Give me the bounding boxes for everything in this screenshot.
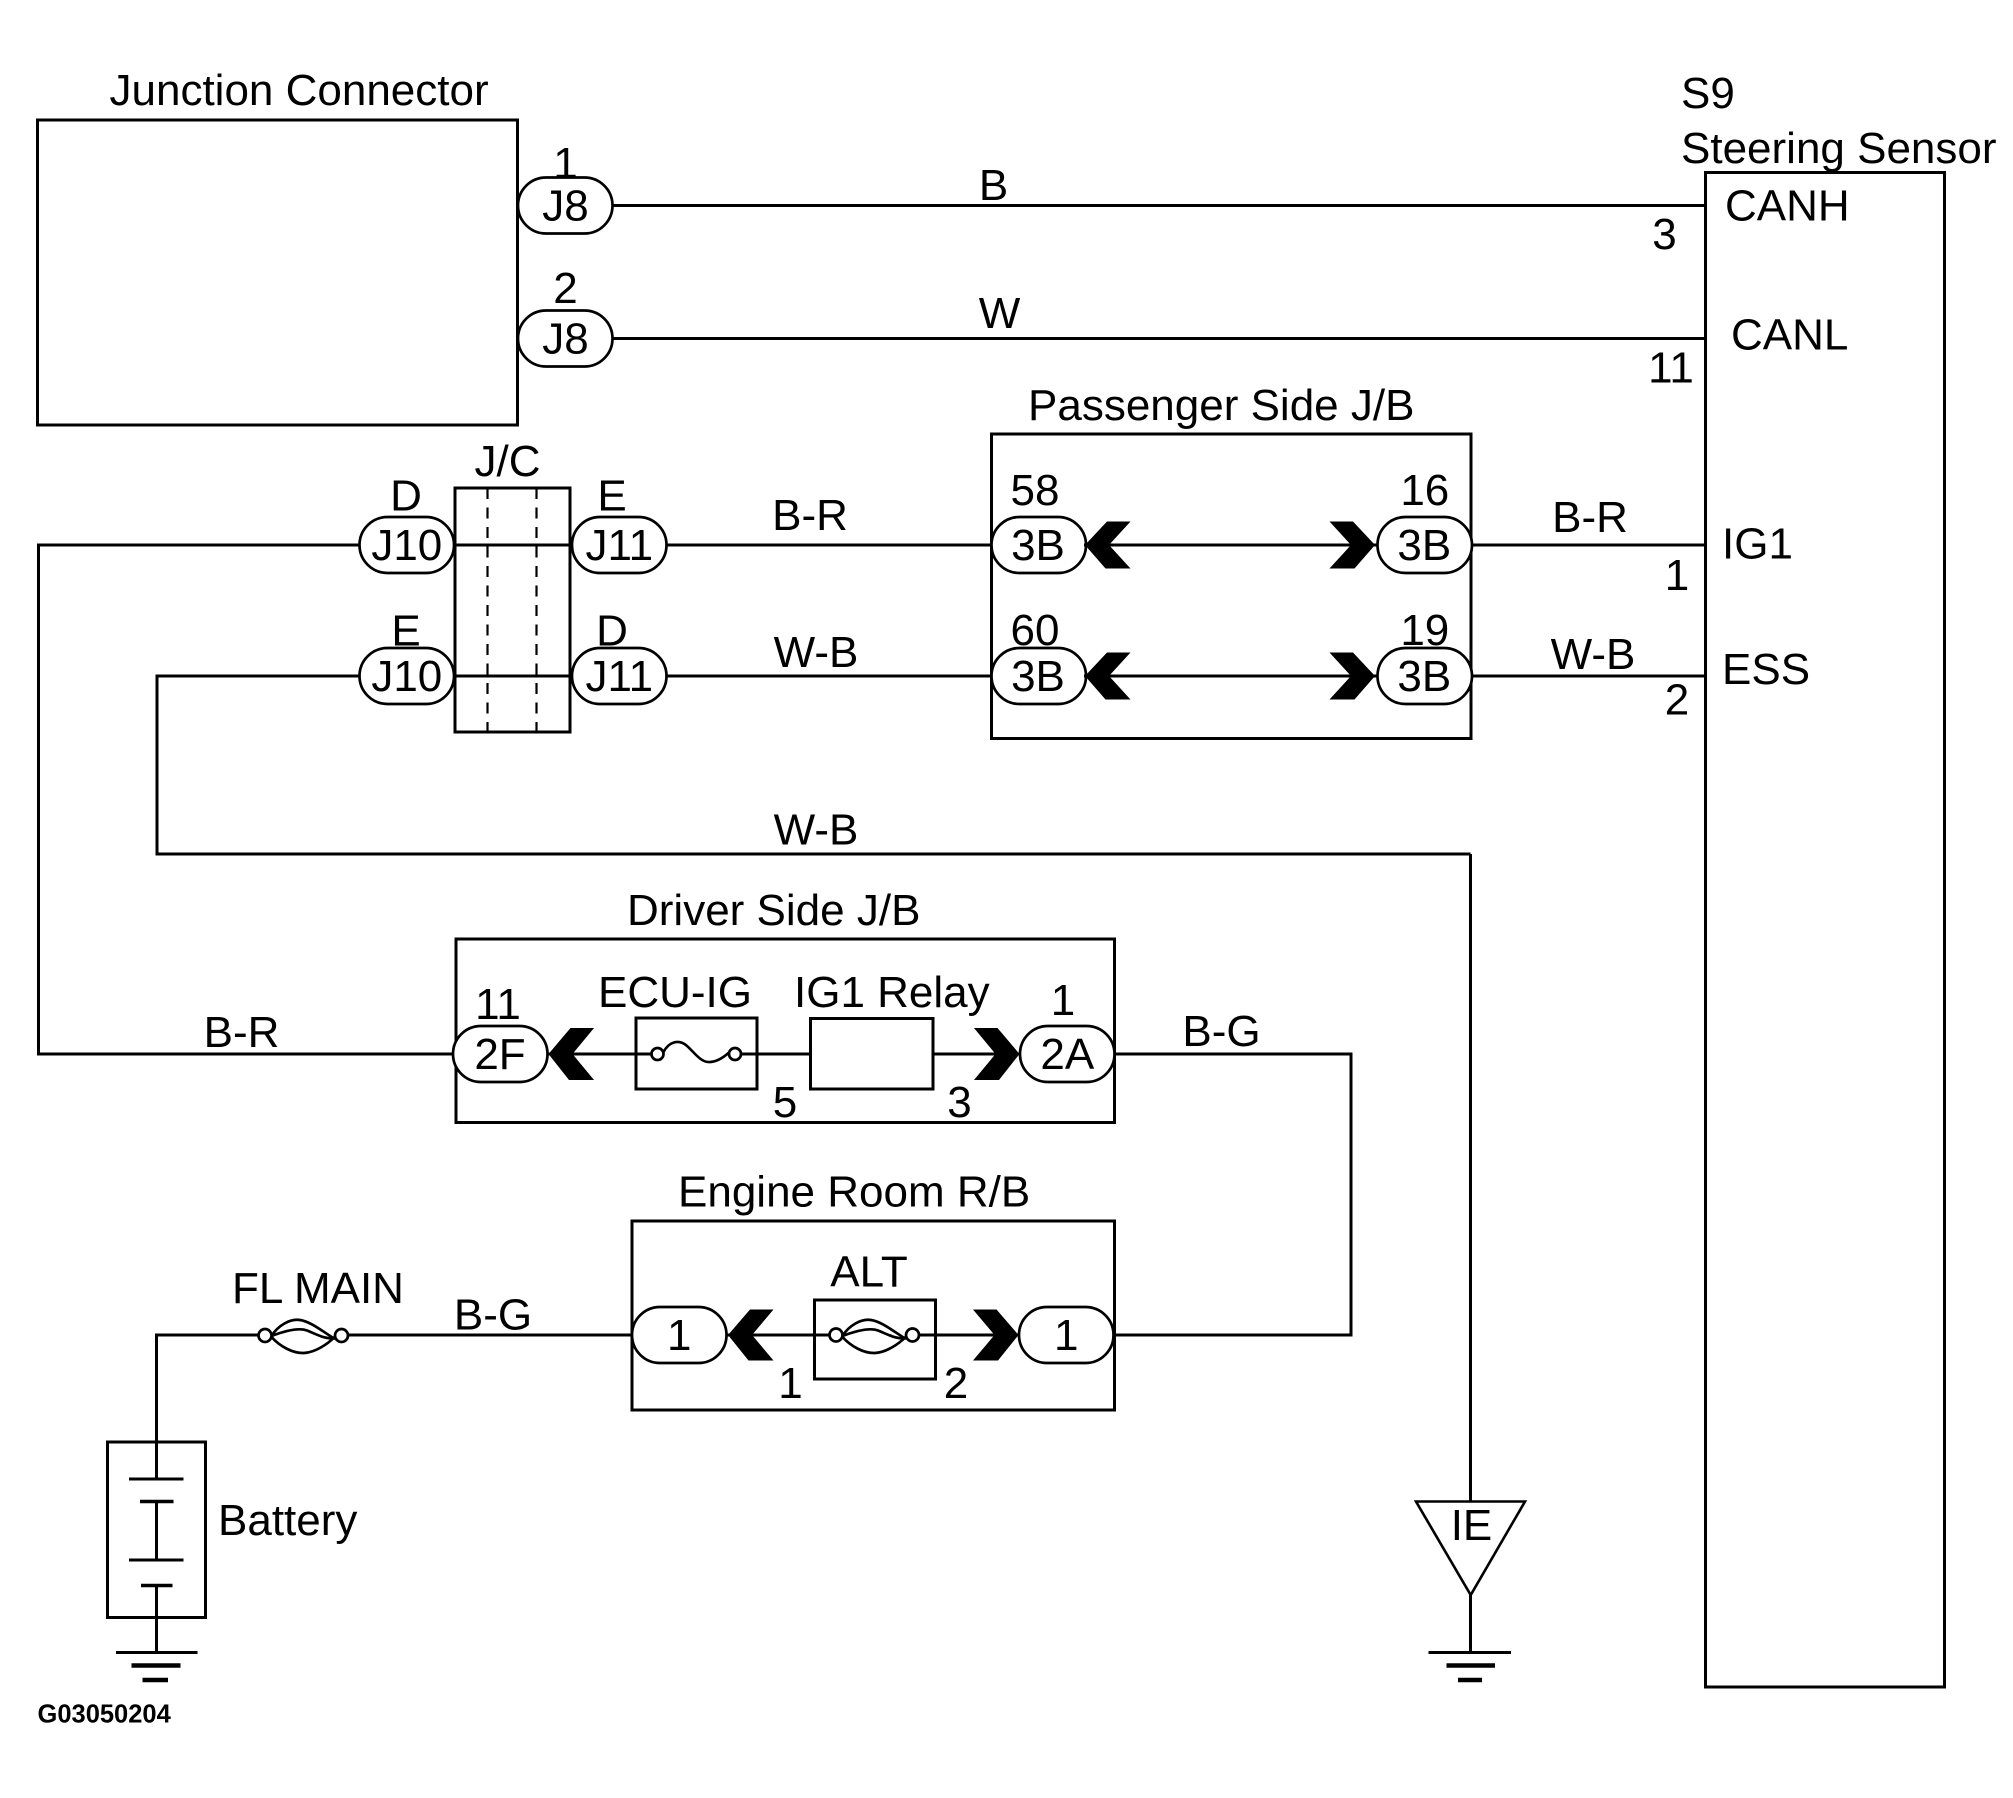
svg-text:2: 2 bbox=[553, 264, 577, 313]
svg-text:G03050204: G03050204 bbox=[38, 1701, 172, 1729]
svg-text:IG1: IG1 bbox=[1722, 520, 1793, 569]
svg-text:B-R: B-R bbox=[204, 1008, 280, 1057]
wire oval to ALT bbox=[726, 1334, 815, 1337]
svg-text:58: 58 bbox=[1011, 466, 1060, 515]
wire B (CANH) bbox=[612, 204, 1706, 207]
arrow right row2 bbox=[1330, 653, 1376, 700]
wire B-R to passenger J/B bbox=[667, 544, 993, 547]
svg-text:S9: S9 bbox=[1681, 69, 1735, 118]
wire row2 left stub bbox=[157, 675, 360, 678]
passenger side J/B box bbox=[992, 381, 1472, 739]
wire IE to ground bbox=[1469, 1595, 1472, 1653]
wire row2 through J/C bbox=[454, 675, 572, 678]
svg-text:3: 3 bbox=[947, 1078, 971, 1127]
wire battery to ground bbox=[155, 1586, 158, 1653]
svg-text:2A: 2A bbox=[1040, 1030, 1094, 1079]
connector 1 right bbox=[1019, 1307, 1114, 1363]
svg-text:CANL: CANL bbox=[1731, 311, 1848, 360]
wire fuse to relay bbox=[757, 1053, 811, 1056]
svg-text:11: 11 bbox=[1648, 344, 1694, 393]
svg-text:2F: 2F bbox=[474, 1030, 525, 1079]
svg-text:Steering Sensor: Steering Sensor bbox=[1681, 124, 1997, 173]
junction connector box bbox=[38, 66, 518, 425]
svg-text:ECU-IG: ECU-IG bbox=[598, 968, 752, 1017]
svg-text:1: 1 bbox=[667, 1311, 691, 1360]
svg-text:Driver Side J/B: Driver Side J/B bbox=[627, 886, 920, 935]
arrow right engine bbox=[973, 1310, 1019, 1361]
svg-text:1: 1 bbox=[553, 139, 577, 188]
svg-text:W-B: W-B bbox=[774, 628, 859, 677]
svg-text:60: 60 bbox=[1011, 606, 1060, 655]
svg-text:D: D bbox=[390, 472, 422, 521]
svg-text:2: 2 bbox=[944, 1359, 968, 1408]
ground battery bbox=[116, 1653, 198, 1681]
pin 3 CANH bbox=[1652, 182, 1849, 260]
wire W-B vertical drop bbox=[156, 675, 159, 855]
svg-text:5: 5 bbox=[773, 1078, 797, 1127]
connector 1 left bbox=[632, 1307, 727, 1363]
wire row1 through J/C bbox=[454, 544, 572, 547]
wire W-B to ESS bbox=[1471, 675, 1706, 678]
svg-text:W-B: W-B bbox=[774, 806, 859, 855]
svg-text:Passenger Side J/B: Passenger Side J/B bbox=[1028, 381, 1414, 430]
wire left vertical B-R bbox=[37, 544, 40, 1055]
svg-text:1: 1 bbox=[1665, 551, 1689, 600]
wire B-G into engine R/B bbox=[349, 1334, 633, 1337]
svg-text:1: 1 bbox=[1054, 1311, 1078, 1360]
relay IG1 bbox=[794, 968, 990, 1127]
wire W-B horizontal run bbox=[156, 853, 1471, 856]
svg-text:J8: J8 bbox=[542, 315, 588, 364]
svg-text:W-B: W-B bbox=[1551, 630, 1636, 679]
svg-text:2: 2 bbox=[1665, 676, 1689, 725]
svg-text:B-R: B-R bbox=[772, 491, 848, 540]
connector 3B pin 58 bbox=[992, 466, 1087, 573]
svg-text:CANH: CANH bbox=[1725, 182, 1850, 231]
svg-text:J8: J8 bbox=[542, 182, 588, 231]
wire row2 inside J/B bbox=[1084, 675, 1378, 678]
svg-text:J11: J11 bbox=[585, 652, 653, 701]
arrow right row1 bbox=[1330, 522, 1376, 569]
arrow left row2 bbox=[1085, 653, 1131, 700]
svg-text:B-R: B-R bbox=[1552, 493, 1628, 542]
wire B-R into driver J/B bbox=[37, 1053, 454, 1056]
connector J8 pin 2 bbox=[518, 264, 613, 367]
connector 3B pin 19 bbox=[1378, 606, 1473, 704]
fusible link FL MAIN bbox=[232, 1264, 404, 1353]
engine room R/B box bbox=[632, 1168, 1115, 1411]
wire battery to FL MAIN bbox=[157, 1334, 259, 1337]
connector 3B pin 16 bbox=[1378, 466, 1473, 573]
junction connector J/C box bbox=[455, 437, 570, 732]
svg-text:J10: J10 bbox=[371, 521, 442, 570]
arrow left row1 bbox=[1085, 522, 1131, 569]
wire W-B to passenger J/B bbox=[667, 675, 993, 678]
svg-text:IG1 Relay: IG1 Relay bbox=[794, 968, 990, 1017]
connector J10 pin E bbox=[360, 607, 455, 705]
connector 2F pin 11 bbox=[453, 980, 548, 1082]
arrow left driver bbox=[549, 1028, 595, 1080]
svg-text:B: B bbox=[979, 161, 1008, 210]
svg-text:FL MAIN: FL MAIN bbox=[232, 1264, 404, 1313]
wire B-R to IG1 bbox=[1471, 544, 1706, 547]
fuse ALT bbox=[778, 1248, 968, 1409]
arrow right driver bbox=[974, 1028, 1020, 1080]
svg-text:11: 11 bbox=[475, 980, 521, 1029]
connector 2A pin 1 bbox=[1020, 976, 1115, 1082]
svg-text:Battery: Battery bbox=[218, 1496, 357, 1545]
fuse ECU-IG bbox=[598, 968, 797, 1127]
pin 2 ESS bbox=[1665, 645, 1810, 725]
wire ALT to right oval bbox=[936, 1334, 1020, 1337]
svg-text:3: 3 bbox=[1652, 210, 1676, 259]
svg-text:E: E bbox=[597, 472, 626, 521]
arrow left engine bbox=[728, 1310, 774, 1361]
svg-text:J10: J10 bbox=[371, 652, 442, 701]
wire relay to 2A bbox=[933, 1053, 1020, 1056]
svg-text:3B: 3B bbox=[1397, 521, 1451, 570]
ground triangle IE bbox=[1416, 1501, 1525, 1595]
svg-text:3B: 3B bbox=[1011, 652, 1065, 701]
svg-text:W: W bbox=[979, 289, 1021, 338]
svg-text:D: D bbox=[596, 607, 628, 656]
wire FL MAIN vertical to battery bbox=[155, 1334, 158, 1480]
wire 2F to fuse bbox=[547, 1053, 636, 1056]
svg-text:IE: IE bbox=[1451, 1501, 1493, 1550]
steering sensor S9 box bbox=[1681, 69, 1997, 1687]
wire B-G from 2A bbox=[1115, 1053, 1352, 1056]
connector J11 pin D bbox=[572, 607, 667, 705]
driver side J/B box bbox=[456, 886, 1115, 1123]
svg-text:ESS: ESS bbox=[1722, 645, 1810, 694]
svg-text:Junction Connector: Junction Connector bbox=[110, 66, 489, 115]
pin 1 IG1 bbox=[1665, 520, 1793, 601]
svg-text:ALT: ALT bbox=[830, 1248, 907, 1297]
wire W (CANL) bbox=[612, 337, 1706, 340]
svg-text:B-G: B-G bbox=[454, 1291, 532, 1340]
connector 3B pin 60 bbox=[992, 606, 1087, 704]
svg-text:16: 16 bbox=[1400, 466, 1449, 515]
wire row1 inside J/B bbox=[1084, 544, 1378, 547]
connector J11 pin E bbox=[572, 472, 667, 574]
wire right oval to B-G drop bbox=[1114, 1334, 1353, 1337]
svg-text:Engine Room R/B: Engine Room R/B bbox=[678, 1168, 1030, 1217]
wire row1 left stub bbox=[39, 544, 361, 547]
svg-text:3B: 3B bbox=[1011, 521, 1065, 570]
svg-text:J/C: J/C bbox=[475, 437, 541, 486]
svg-text:J11: J11 bbox=[585, 521, 653, 570]
svg-text:1: 1 bbox=[778, 1359, 802, 1408]
svg-text:E: E bbox=[391, 607, 420, 656]
svg-text:B-G: B-G bbox=[1182, 1007, 1260, 1056]
pin 11 CANL bbox=[1648, 311, 1848, 393]
wire W-B vertical to IE ground bbox=[1469, 854, 1472, 1502]
battery bbox=[108, 1442, 358, 1618]
svg-text:3B: 3B bbox=[1397, 652, 1451, 701]
ground IE bbox=[1429, 1653, 1512, 1681]
wire B-G vertical drop bbox=[1350, 1053, 1353, 1336]
svg-text:19: 19 bbox=[1400, 606, 1449, 655]
connector J10 pin D bbox=[360, 472, 455, 574]
connector J8 pin 1 bbox=[518, 139, 613, 234]
svg-text:1: 1 bbox=[1051, 976, 1075, 1025]
